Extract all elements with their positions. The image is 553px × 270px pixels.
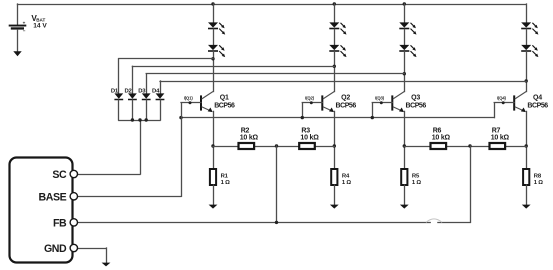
pin BASE (70, 193, 77, 200)
node: base current probe Q1 (189, 101, 192, 104)
wire: sense chain Q1-Q2 (213, 146, 334, 148)
wire: string 4 from rail to LEDs (526, 4, 528, 22)
transistor Q4 BCP56 (514, 92, 526, 113)
wire: midpoint 1 to FB (276, 146, 278, 222)
svg-text:1 Ω: 1 Ω (412, 180, 422, 186)
wire: string 2 cathode down to collector (334, 52, 336, 92)
wire: string 1 from rail to LEDs (213, 4, 215, 22)
svg-text:GND: GND (44, 243, 67, 255)
wire: Q4 emitter column (526, 111, 528, 169)
wire: +14V top supply rail (18, 4, 527, 6)
node: base current probe Q3 (380, 101, 383, 104)
wire (334, 29, 336, 45)
ground (controller GND) (102, 263, 111, 267)
svg-text:R5: R5 (412, 173, 420, 179)
LED D4a (string 4 top) (521, 22, 531, 27)
node: FB / midpoint1 junction (275, 221, 278, 224)
LED D2a (string 2 top) (329, 22, 339, 27)
transistor Q3 BCP56 (392, 92, 404, 113)
svg-text:R4: R4 (342, 173, 350, 179)
ground (battery) (13, 51, 21, 56)
wire: string 3 from rail to LEDs (404, 4, 406, 22)
svg-text:−: − (23, 29, 26, 34)
node: rail junction string 3 (403, 2, 406, 5)
svg-text:1 Ω: 1 Ω (342, 180, 352, 186)
svg-text:D2: D2 (124, 89, 132, 95)
wire: Q2 emitter column (334, 111, 336, 169)
resistor R3 10 kohm (299, 143, 315, 149)
node: rail junction string 2 (333, 2, 336, 5)
diode D3 (142, 74, 151, 120)
svg-text:14 V: 14 V (33, 23, 47, 30)
ground (R8) (522, 205, 531, 209)
node: base bus to BASE pin riser (179, 116, 182, 119)
resistor R6 10 kohm (431, 143, 447, 149)
transistor Q2 BCP56 (322, 92, 334, 113)
wire: BASE pin to base bus/Q1 base (78, 103, 182, 197)
wire (526, 185, 528, 205)
svg-text:R8: R8 (534, 173, 542, 179)
svg-text:i(Q2): i(Q2) (305, 95, 315, 100)
svg-text:FB: FB (53, 217, 67, 229)
svg-text:D1: D1 (111, 89, 119, 95)
node: collector/D1 sense junction (211, 57, 214, 60)
diode D4 (156, 81, 165, 120)
svg-text:SC: SC (52, 169, 67, 181)
wire (404, 185, 406, 205)
svg-text:+: + (23, 20, 26, 25)
wire: Q3 base tap from base bus (372, 103, 374, 118)
diode D1 (114, 59, 123, 120)
wire (526, 29, 528, 45)
wire: GND pin (78, 248, 107, 263)
resistor R1 1 ohm (210, 169, 216, 185)
svg-text:i(Q3): i(Q3) (375, 95, 385, 100)
LED D2b (string 2 bottom) (329, 45, 339, 50)
LED D4b (string 4 bottom) (521, 45, 531, 50)
wire: FB sense line (78, 219, 471, 223)
node: base current probe Q2 (310, 101, 313, 104)
svg-text:BCP56: BCP56 (527, 103, 548, 110)
node: collector/D4 sense junction (525, 79, 528, 82)
pin SC (70, 170, 77, 177)
node: rail junction string 1 (211, 2, 214, 5)
wire: sense chain Q3-Q4 (404, 146, 526, 148)
svg-text:R2: R2 (241, 128, 250, 135)
wire: string 2 from rail to LEDs (334, 4, 336, 22)
svg-text:1 Ω: 1 Ω (221, 180, 231, 186)
wire: D4 sense line (160, 81, 526, 83)
wire: string 3 cathode down to collector (404, 52, 406, 92)
node: base bus junction Q3 (371, 116, 374, 119)
wire: Q3 base lead (372, 102, 392, 104)
svg-text:Q2: Q2 (341, 94, 350, 101)
svg-text:BCP56: BCP56 (336, 103, 357, 110)
ground (R1) (209, 205, 218, 209)
node: emitter / sense chain junction 1 (211, 144, 214, 147)
op-amp/controller U1 box (10, 158, 73, 263)
ground (R5) (400, 205, 409, 209)
wire: D2 sense line (132, 66, 334, 68)
wire: D1 sense line (119, 58, 213, 60)
resistor R4 1 ohm (331, 169, 337, 185)
node: collector/D3 sense junction (403, 72, 406, 75)
svg-text:10 kΩ: 10 kΩ (240, 135, 259, 142)
svg-text:BCP56: BCP56 (214, 103, 235, 110)
resistor R7 10 kohm (490, 143, 506, 149)
svg-text:10 kΩ: 10 kΩ (491, 135, 510, 142)
svg-text:R1: R1 (221, 173, 229, 179)
ground (R4) (330, 205, 339, 209)
pin FB (70, 219, 77, 226)
node: R2/R3 midpoint (275, 144, 278, 147)
wire: Q4 base tap from base bus (494, 103, 496, 118)
wire: common base bus (181, 117, 494, 119)
node: emitter / sense chain junction 4 (525, 144, 528, 147)
resistor R2 10 kohm (239, 143, 255, 149)
svg-text:Q3: Q3 (411, 94, 420, 101)
svg-text:R7: R7 (492, 128, 501, 135)
svg-text:BASE: BASE (39, 191, 67, 203)
transistor Q1 BCP56 (201, 92, 213, 113)
svg-text:1 Ω: 1 Ω (534, 180, 544, 186)
svg-text:R3: R3 (301, 128, 310, 135)
svg-text:10 kΩ: 10 kΩ (300, 135, 319, 142)
node: base bus junction Q2 (301, 116, 304, 119)
LED D3a (string 3 top) (399, 22, 409, 27)
node: R6/R7 midpoint (468, 144, 471, 147)
wire (213, 29, 215, 45)
svg-text:D3: D3 (138, 89, 146, 95)
battery V_BAT 14 V (9, 4, 27, 52)
svg-text:Q1: Q1 (220, 94, 229, 101)
node: base current probe Q4 (502, 101, 505, 104)
svg-text:D4: D4 (152, 89, 160, 95)
wire: Q2 base tap from base bus (302, 103, 304, 118)
svg-text:R6: R6 (433, 128, 442, 135)
node: collector/D2 sense junction (333, 65, 336, 68)
pin GND (70, 244, 77, 251)
wire: Q4 base lead (494, 102, 514, 104)
svg-text:i(Q1): i(Q1) (184, 95, 194, 100)
wire: D3 sense line (146, 73, 404, 75)
svg-text:i(Q4): i(Q4) (497, 95, 507, 100)
wire: Q3 emitter column (404, 111, 406, 169)
resistor R8 1 ohm (523, 169, 529, 185)
label V_BAT 14 V (31, 14, 47, 30)
svg-text:BCP56: BCP56 (406, 103, 427, 110)
node: bus junctions (131, 118, 148, 121)
LED D3b (string 3 bottom) (399, 45, 409, 50)
wire: string 4 cathode down to collector (526, 52, 528, 92)
wire (213, 185, 215, 205)
wire (404, 29, 406, 45)
LED D1b (string 1 bottom) (208, 45, 218, 50)
diode D2 (128, 66, 137, 120)
svg-text:Q4: Q4 (533, 94, 542, 101)
wire: diode common bus to SC (119, 120, 160, 174)
LED D1a (string 1 top) (208, 22, 218, 27)
wire: Q1 base lead (181, 102, 201, 104)
wire: string 1 cathode down to collector (213, 52, 215, 92)
svg-text:10 kΩ: 10 kΩ (432, 135, 451, 142)
wire: Q2 base lead (302, 102, 322, 104)
node: emitter / sense chain junction 3 (403, 144, 406, 147)
wire: Q1 emitter column (213, 111, 215, 169)
wire: midpoint 2 riser to FB (470, 146, 472, 222)
node: emitter / sense chain junction 2 (333, 144, 336, 147)
wire: SC pin to diode bus (78, 174, 141, 176)
resistor R5 1 ohm (401, 169, 407, 185)
wire (334, 185, 336, 205)
